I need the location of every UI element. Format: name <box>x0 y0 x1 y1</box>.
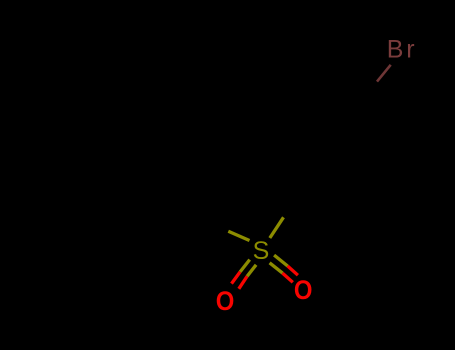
svg-text:S: S <box>253 237 270 265</box>
double bond S=O left, line 2 O-half <box>239 276 247 289</box>
double bond S=O left, line 1 O-half <box>232 272 241 284</box>
bond C-Br (visible Br-colored half) <box>377 65 391 82</box>
svg-text:O: O <box>294 275 313 305</box>
bond S-CH3 (S-colored) <box>228 231 249 240</box>
svg-text:O: O <box>216 286 235 316</box>
double bond S=O left, line 1 S-half <box>240 260 250 272</box>
double bond S=O right, line 2 S-half <box>270 263 283 273</box>
bond S-C(aryl) (S-colored half) <box>270 217 284 238</box>
double bond S=O left, line 2 S-half <box>247 265 256 277</box>
double bond S=O right, line 1 S-half <box>274 255 288 266</box>
double bond S=O right, line 2 O-half <box>283 273 293 282</box>
double bond S=O right, line 1 O-half <box>288 266 298 275</box>
svg-text:Br: Br <box>387 36 418 64</box>
